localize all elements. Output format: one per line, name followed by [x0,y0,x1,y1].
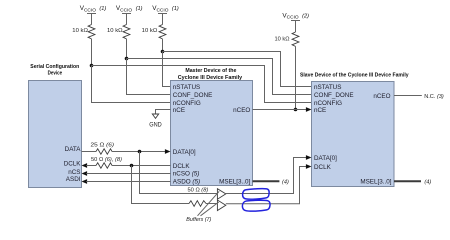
wire junction down to master CONF_DONE [127,59,171,95]
svg-text:nSTATUS: nSTATUS [173,84,200,91]
svg-text:MSEL[3..0]: MSEL[3..0] [360,178,391,185]
wire R6 to master DCLK [112,165,171,167]
resistor R3 10k pull-up (nSTATUS) [159,25,166,39]
svg-text:nCSO (5): nCSO (5) [173,171,200,178]
svg-text:Buffers (7): Buffers (7) [186,217,211,223]
wire buffer B2 to slave DCLK [226,167,307,204]
svg-text:10 kΩ: 10 kΩ [107,28,123,34]
wire MSEL[3..0] bus of master [253,180,280,182]
wire nCONFIG branch to slave [92,66,312,103]
slave device U3 body [312,82,395,187]
power rail bar R4 [291,20,300,22]
buffer B2 (DCLK) [217,200,225,211]
arrow into U1 ASDI [82,179,88,184]
resistor R2 10k pull-up (CONF_DONE) [123,25,130,39]
svg-text:Serial Configuration: Serial Configuration [30,64,79,70]
svg-text:nCEO: nCEO [233,107,250,114]
resistor R6 50 Ohm series on DCLK [96,163,112,168]
svg-text:DCLK: DCLK [173,163,191,170]
svg-text:ASDI: ASDI [66,176,81,183]
svg-text:DATA[0]: DATA[0] [314,155,337,162]
junction DCLK net [130,164,134,168]
svg-text:Master Device of the: Master Device of the [185,68,236,74]
svg-text:DCLK: DCLK [314,164,332,171]
wire R7 to buffer B2 [206,203,217,205]
svg-text:DATA[0]: DATA[0] [173,149,196,156]
callout line to buffer B1 [198,191,220,216]
svg-text:CONF_DONE: CONF_DONE [173,92,213,99]
wire VCCIO to R4 [295,21,297,33]
svg-text:ASDO (5): ASDO (5) [173,178,200,185]
wire junction down to master nCONFIG [92,66,171,103]
svg-text:nSTATUS: nSTATUS [314,84,341,91]
arrow into master DATA[0] [165,149,171,154]
resistor R1 10k pull-up (nCONFIG) [88,25,95,39]
junction CONF_DONE net [125,57,129,61]
arrow into U1 nCS [82,171,88,176]
svg-text:10 kΩ: 10 kΩ [275,36,290,42]
wire nCS to master nCSO [86,173,170,175]
wire DATA from U1 to resistor R5 [82,151,97,153]
ground symbol [152,114,158,118]
power rail bar R2 [122,13,131,15]
wire MSEL[3..0] bus of slave [394,180,421,182]
svg-text:10 kΩ: 10 kΩ [72,28,88,34]
resistor R5 25 Ohm series on DATA [96,149,112,154]
junction nSTATUS net [161,50,165,54]
svg-text:50 Ω (8): 50 Ω (8) [188,188,209,194]
svg-text:nCONFIG: nCONFIG [314,100,342,107]
svg-text:Cyclone III Device Family: Cyclone III Device Family [178,75,243,81]
resistor R4 10k pull-up (nCE) [292,32,299,46]
svg-text:MSEL[3..0]: MSEL[3..0] [219,178,250,185]
wire VCCIO to R1 [91,14,93,25]
svg-text:25 Ω (6): 25 Ω (6) [91,142,115,148]
svg-text:Slave Device of the Cyclone II: Slave Device of the Cyclone III Device F… [300,72,409,78]
power rail bar R3 [158,13,167,15]
arrow into slave DATA[0] [306,155,312,160]
wire DCLK from U1 to resistor R6 [86,165,96,167]
svg-text:DCLK: DCLK [64,160,82,167]
wire slave nCEO to N.C. [394,95,422,97]
junction DATA net [138,150,142,154]
wire DCLK branch down to resistor R7 [132,166,190,204]
buffer B1 (DATA) [217,189,225,200]
svg-text:nCE: nCE [173,107,185,114]
wire R2 to junction [126,39,128,59]
power rail bar R1 [87,13,96,15]
blue annotation oval on DCLK wire [242,200,270,211]
master device U2 body [171,81,253,186]
svg-text:N.C. (3): N.C. (3) [424,94,444,100]
wire R5 to master DATA[0] [112,151,166,153]
svg-text:10 kΩ: 10 kΩ [142,28,158,34]
resistor R7 50 Ohm (8) on DCLK buffer feed [189,201,206,207]
svg-text:nCE: nCE [314,107,326,114]
wire VCCIO to R3 [162,14,164,25]
wire CONF_DONE branch to slave [127,59,312,95]
svg-text:CONF_DONE: CONF_DONE [314,92,354,99]
wire master nCE to ground [156,110,171,115]
wire R4 down to nCE net [295,46,297,109]
wire nSTATUS branch to slave [163,52,312,87]
svg-text:(4): (4) [282,179,289,185]
wire master nCEO to slave nCE [253,109,307,111]
wire R1 to junction [91,39,93,66]
wire ASDI to master ASDO [86,181,170,183]
junction nCONFIG net [90,64,94,68]
svg-text:(4): (4) [424,179,431,185]
wire VCCIO to R2 [126,14,128,25]
wire junction down to master nSTATUS [163,52,171,87]
arrow into U1 DCLK [82,163,88,168]
svg-text:DATA: DATA [65,146,82,153]
svg-text:nCEO: nCEO [373,93,390,100]
svg-text:GND: GND [149,121,162,128]
arrow into slave nCE [306,107,312,112]
blue annotation oval on DATA wire [243,189,270,200]
svg-text:50 Ω (6), (8): 50 Ω (6), (8) [91,157,122,163]
junction nCE net [294,108,298,112]
svg-text:nCONFIG: nCONFIG [173,100,201,107]
serial configuration device U1 body [29,81,82,188]
svg-text:Device: Device [48,70,63,76]
callout line to buffer B2 [201,202,219,216]
wire R3 to junction [162,39,164,52]
wire DATA branch down to buffer B1 [140,152,218,194]
arrow into slave DCLK [306,164,312,169]
wire buffer B1 to slave DATA[0] [226,158,307,194]
